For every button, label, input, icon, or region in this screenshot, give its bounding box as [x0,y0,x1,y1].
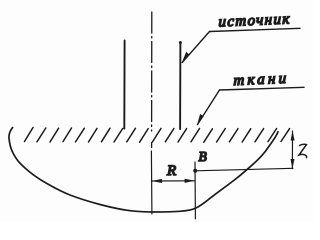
leader line to surface [198,90,220,125]
svg-text:ткани: ткани [233,71,289,89]
B dimension vertical line [194,162,196,219]
svg-text:B: B [199,149,207,164]
R dimension left arrowhead [152,179,162,183]
horizontal reference line from B to z [195,168,293,171]
underline of ткани [220,87,305,90]
R dimension line [151,180,195,182]
leader line to source [182,32,209,63]
source electrode left line [123,41,125,129]
R dimension extension line (center) [150,151,153,214]
node B (dot at junction) [193,169,197,173]
z dimension vertical line [291,131,293,169]
dot at top of right line [179,41,182,44]
center line dot below surface [151,143,153,148]
z dimension top arrowhead [291,131,295,141]
svg-text:R: R [166,163,176,179]
R dimension right arrowhead [185,179,195,183]
svg-text:источник: источник [218,11,291,30]
arrowhead at surface [197,114,204,126]
z dimension bottom arrowhead [291,159,295,169]
arrowhead at source [182,52,190,63]
surface hatching [25,128,290,143]
center line (dash-dot axis of source) [151,12,153,131]
source electrode right line [179,42,181,129]
label z [299,144,307,157]
underline of источник [210,28,301,31]
dose distribution curve [9,128,278,213]
